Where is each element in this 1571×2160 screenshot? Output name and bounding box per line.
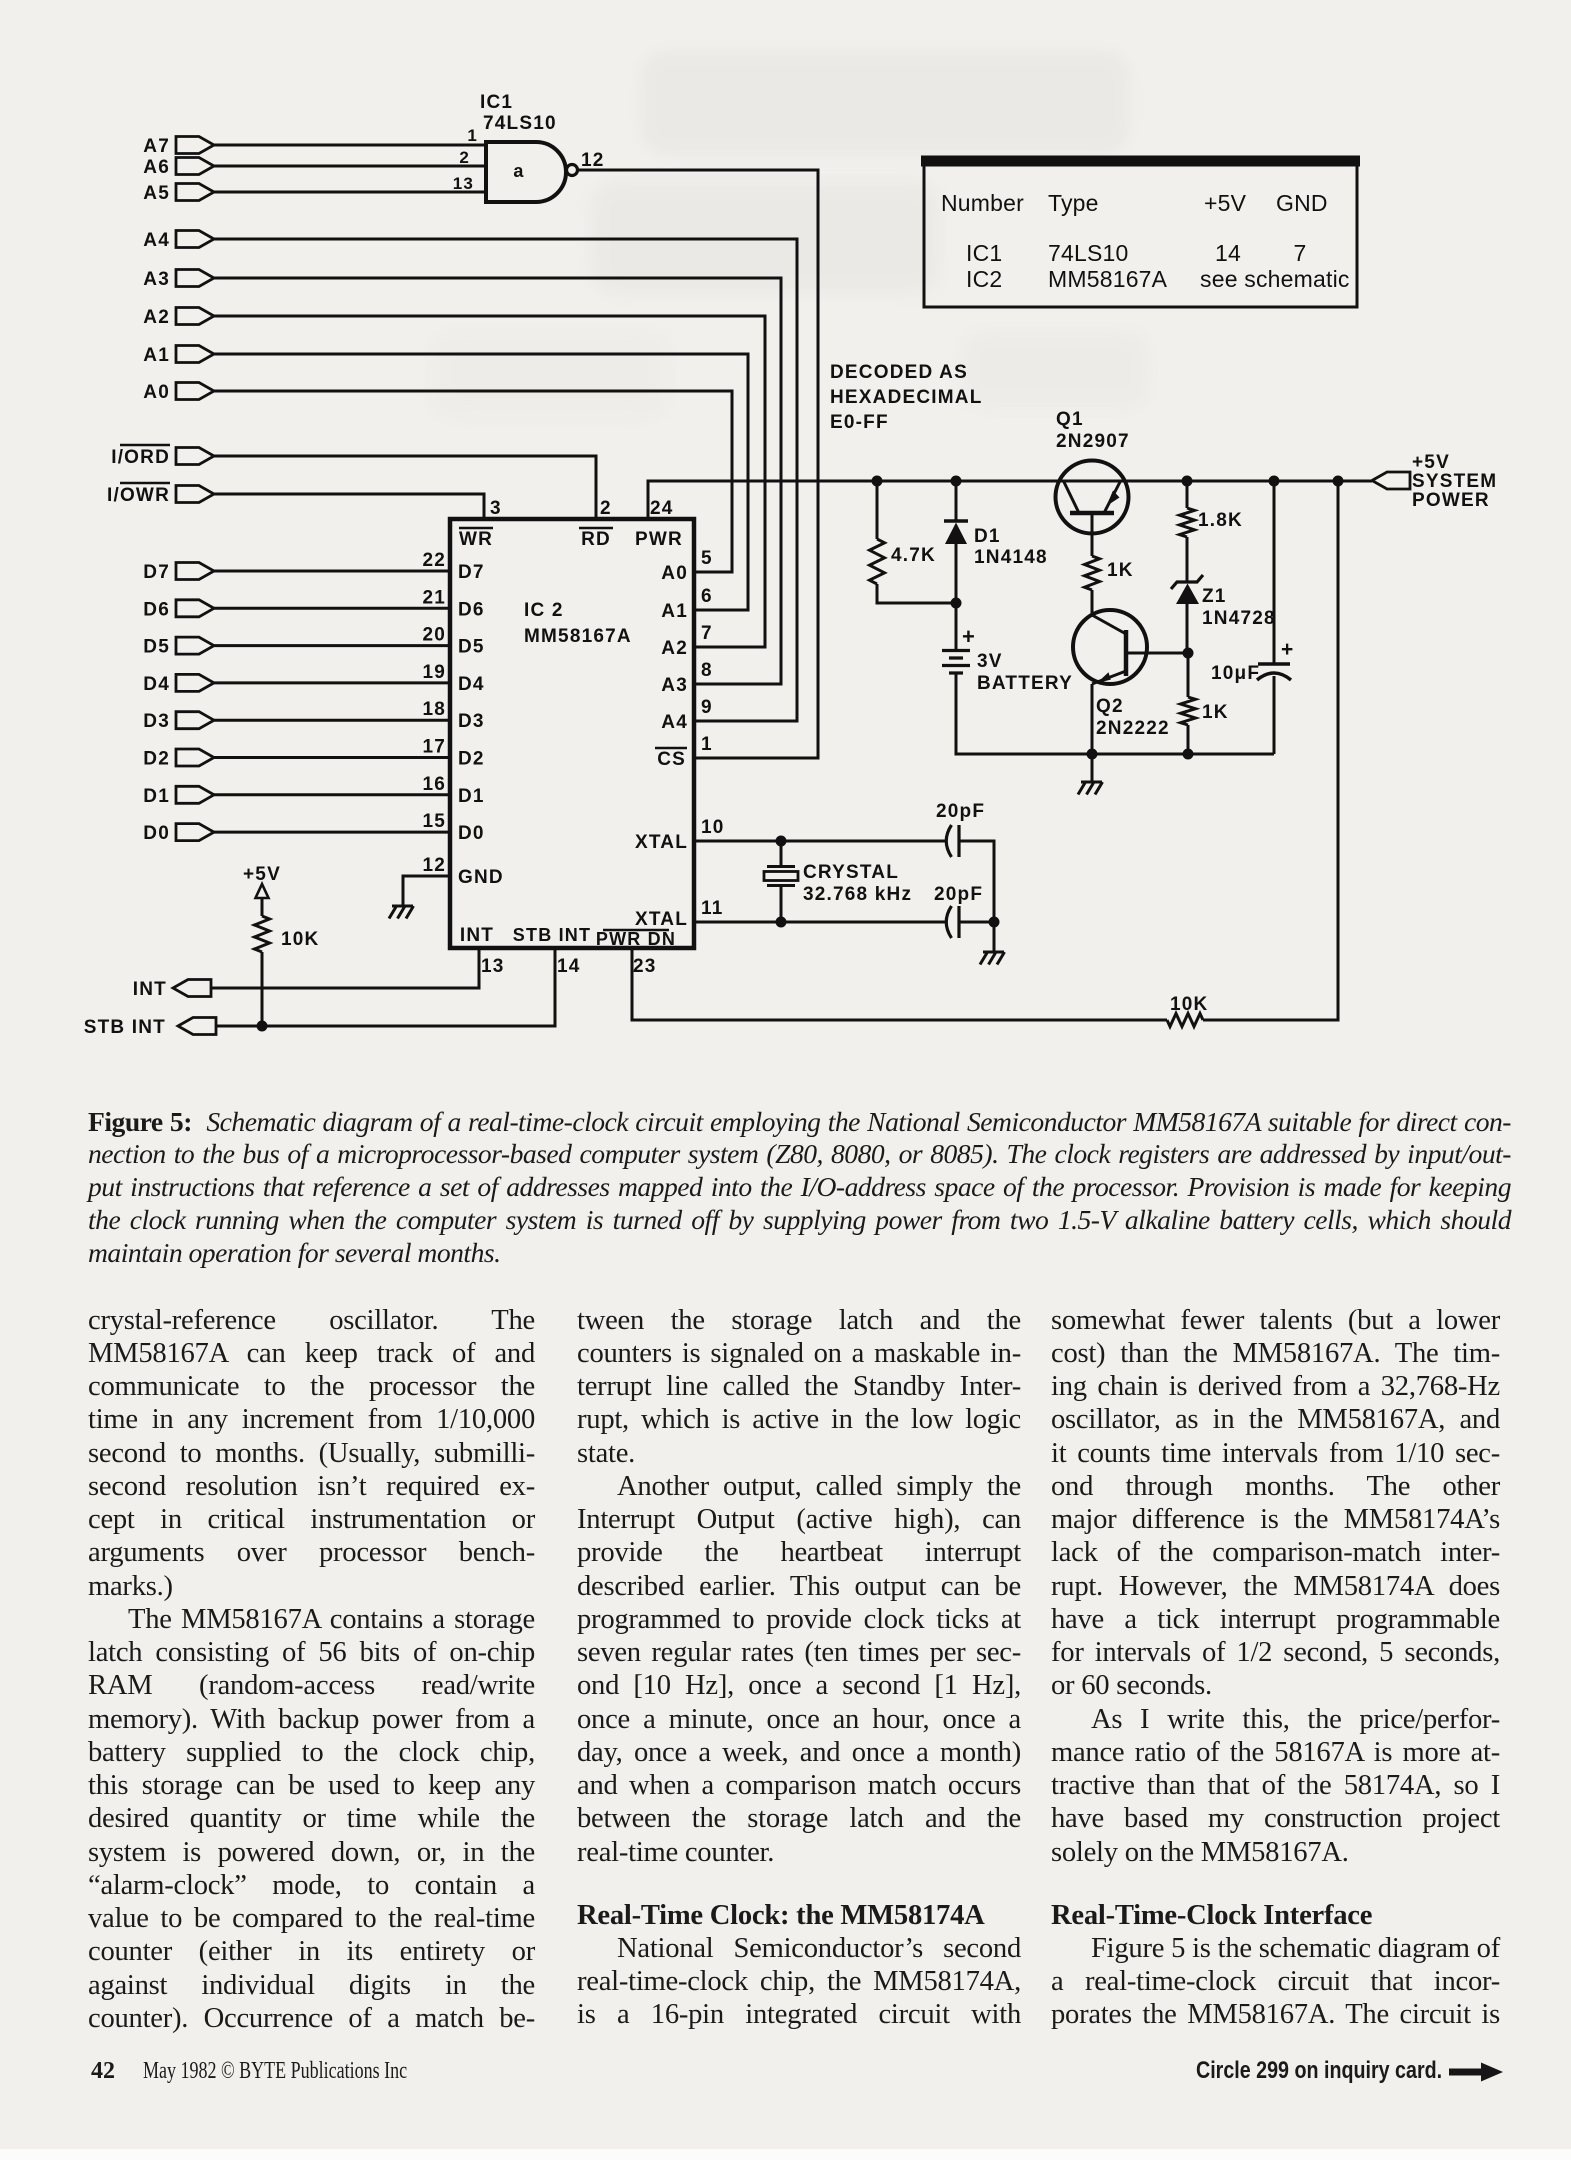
svg-text:3: 3	[490, 498, 502, 519]
svg-text:Q1: Q1	[1056, 409, 1084, 430]
battery 3V	[942, 603, 1274, 754]
svg-text:D0: D0	[458, 823, 485, 844]
wire PWR DN pin 23 with resistor 10K to +5V rail	[632, 481, 1338, 1027]
junction Q2 base / zener / 1K	[1183, 648, 1194, 659]
junction 1K / bottom rail	[1183, 749, 1194, 760]
svg-text:10μF: 10μF	[1211, 663, 1260, 684]
svg-text:A3: A3	[143, 269, 170, 290]
svg-text:13: 13	[453, 174, 474, 193]
input flag D7	[143, 562, 450, 583]
faint print bleed-through (decorative)	[640, 50, 1130, 155]
resistor 4.7K	[870, 481, 957, 603]
svg-text:a: a	[513, 161, 524, 181]
zener Z1 1N4728	[1171, 575, 1276, 653]
svg-text:D3: D3	[143, 711, 170, 732]
svg-text:D5: D5	[458, 637, 485, 658]
ground at GND pin	[389, 906, 414, 919]
input flag D6	[143, 599, 450, 620]
svg-text:7: 7	[701, 623, 713, 644]
svg-text:7: 7	[1294, 240, 1307, 266]
input flag D4	[143, 674, 450, 695]
input flag A2	[143, 307, 765, 647]
svg-text:MM58167A: MM58167A	[1048, 266, 1168, 292]
resistor 1K (Q2 base divider)	[1181, 653, 1229, 754]
svg-text:PWR: PWR	[635, 529, 683, 550]
figure caption	[88, 1106, 1511, 1139]
junction +5V rail / 4.7K	[872, 476, 883, 487]
svg-text:1K: 1K	[1202, 702, 1229, 723]
svg-text:12: 12	[581, 150, 605, 171]
svg-text:STB INT: STB INT	[513, 925, 591, 945]
+5V supply arrow (pull-up)	[243, 864, 281, 916]
svg-text:A1: A1	[143, 345, 170, 366]
svg-text:CRYSTAL: CRYSTAL	[803, 862, 899, 883]
svg-text:1.8K: 1.8K	[1198, 510, 1243, 531]
diode D1 1N4148	[944, 481, 1048, 603]
svg-text:GND: GND	[458, 867, 504, 888]
svg-text:20pF: 20pF	[936, 801, 985, 822]
svg-text:A3: A3	[661, 675, 688, 696]
svg-text:14: 14	[1215, 240, 1241, 266]
svg-text:MM58167A: MM58167A	[524, 626, 632, 647]
svg-text:SYSTEM: SYSTEM	[1412, 471, 1497, 492]
svg-text:74LS10: 74LS10	[483, 113, 557, 134]
svg-text:GND: GND	[1276, 190, 1328, 216]
body text column 2	[577, 1304, 1021, 1337]
parts table	[921, 158, 1360, 307]
svg-text:A2: A2	[143, 307, 170, 328]
svg-text:+: +	[962, 624, 976, 649]
svg-text:24: 24	[650, 498, 674, 519]
junction 4.7K / D1 / battery	[951, 598, 962, 609]
crystal 32.768 kHz	[764, 841, 912, 922]
svg-text:POWER: POWER	[1412, 490, 1490, 511]
svg-text:5: 5	[701, 548, 713, 569]
svg-text:A2: A2	[661, 638, 688, 659]
input flag A4	[143, 230, 797, 721]
input flag A7	[143, 136, 486, 157]
svg-text:A4: A4	[661, 712, 688, 733]
IC U2 MM58167A body	[450, 519, 694, 949]
svg-text:CS: CS	[657, 749, 686, 770]
svg-text:D0: D0	[143, 823, 170, 844]
svg-text:1K: 1K	[1107, 560, 1134, 581]
svg-text:2: 2	[459, 148, 470, 167]
svg-text:+5V: +5V	[1412, 452, 1450, 473]
svg-text:D7: D7	[458, 562, 485, 583]
svg-text:WR: WR	[459, 529, 493, 550]
svg-text:see schematic: see schematic	[1200, 266, 1350, 292]
svg-text:8: 8	[701, 660, 713, 681]
svg-text:11: 11	[701, 898, 724, 919]
svg-text:INT: INT	[460, 925, 494, 946]
svg-text:+: +	[1281, 638, 1294, 661]
svg-text:D4: D4	[143, 674, 170, 695]
svg-text:19: 19	[422, 662, 446, 683]
svg-text:23: 23	[633, 956, 657, 977]
transistor Q2 2N2222	[1073, 610, 1188, 754]
svg-text:D7: D7	[143, 562, 170, 583]
output flag STB INT	[84, 948, 555, 1038]
svg-text:XTAL: XTAL	[635, 909, 688, 930]
svg-text:1N4728: 1N4728	[1202, 608, 1276, 629]
svg-text:1: 1	[467, 126, 478, 145]
capacitor 10uF	[1211, 481, 1294, 754]
svg-text:IC2: IC2	[966, 266, 1002, 292]
input flag A3	[143, 269, 781, 684]
svg-text:A6: A6	[143, 157, 170, 178]
junction +5V rail / 1.8K	[1182, 476, 1193, 487]
wire XTAL pin 10	[694, 840, 945, 843]
svg-text:D6: D6	[143, 599, 170, 620]
svg-text:6: 6	[701, 586, 713, 607]
svg-text:16: 16	[422, 774, 446, 795]
junction +5V rail / 10uF	[1269, 476, 1280, 487]
svg-text:20: 20	[422, 625, 446, 646]
svg-text:D2: D2	[458, 749, 485, 770]
svg-text:XTAL: XTAL	[635, 832, 688, 853]
svg-text:18: 18	[422, 699, 446, 720]
footer	[91, 2058, 115, 2085]
capacitor 20pF (top)	[936, 801, 994, 922]
input flag D2	[143, 749, 450, 770]
svg-text:10: 10	[701, 817, 725, 838]
svg-text:RD: RD	[581, 529, 611, 550]
svg-text:14: 14	[557, 956, 581, 977]
svg-text:IC 2: IC 2	[524, 600, 564, 621]
input flag A0	[143, 382, 732, 572]
svg-text:D3: D3	[458, 711, 485, 732]
junction crystal bottom	[776, 917, 787, 928]
svg-text:13: 13	[481, 956, 505, 977]
IC2 pin numbers	[422, 498, 724, 977]
junction right rail / +5V rail	[1333, 476, 1344, 487]
svg-text:PWR DN: PWR DN	[596, 929, 676, 949]
svg-text:I/ORD: I/ORD	[111, 447, 170, 468]
svg-text:D1: D1	[143, 786, 170, 807]
svg-text:21: 21	[422, 587, 446, 608]
wire XTAL pin 11	[694, 921, 945, 924]
svg-text:D5: D5	[143, 637, 170, 658]
svg-text:A4: A4	[143, 230, 170, 251]
svg-text:D2: D2	[143, 749, 170, 770]
junction STB INT / pull-up	[257, 1021, 268, 1032]
input flag D5	[143, 637, 450, 658]
svg-text:I/OWR: I/OWR	[107, 485, 170, 506]
wire GND pin 12	[403, 876, 450, 906]
svg-text:A7: A7	[143, 136, 170, 157]
junction 20pF caps	[989, 917, 1000, 928]
svg-text:A0: A0	[661, 563, 688, 584]
wire NAND output pin 12 to CS pin 1	[578, 170, 818, 758]
input flag A6	[143, 157, 486, 178]
svg-text:15: 15	[422, 811, 446, 832]
input flag A1	[143, 345, 748, 610]
resistor 1.8K	[1180, 481, 1243, 582]
svg-text:32.768 kHz: 32.768 kHz	[803, 884, 912, 905]
svg-text:22: 22	[422, 550, 446, 571]
resistor 1K (Q1 base)	[1085, 556, 1134, 615]
input flag D3	[143, 711, 450, 732]
svg-text:Number: Number	[941, 190, 1024, 216]
svg-text:10K: 10K	[281, 929, 319, 950]
svg-text:Z1: Z1	[1202, 586, 1227, 607]
svg-text:E0-FF: E0-FF	[830, 412, 889, 433]
svg-text:2: 2	[600, 498, 612, 519]
body text column 3	[1051, 1304, 1500, 1337]
input flag A5	[143, 183, 486, 204]
svg-text:INT: INT	[133, 979, 167, 1000]
svg-text:1N4148: 1N4148	[974, 547, 1048, 568]
svg-text:12: 12	[422, 855, 446, 876]
junction +5V rail / D1	[951, 476, 962, 487]
svg-text:A1: A1	[661, 601, 688, 622]
svg-text:4.7K: 4.7K	[891, 545, 936, 566]
svg-text:STB INT: STB INT	[84, 1017, 166, 1038]
svg-text:74LS10: 74LS10	[1048, 240, 1129, 266]
wire PWR pin 24 to +5V rail	[648, 481, 1372, 517]
body text column 1	[88, 1304, 535, 1337]
svg-text:HEXADECIMAL: HEXADECIMAL	[830, 387, 983, 408]
capacitor 20pF (bottom)	[934, 884, 994, 938]
ground below 20pF caps	[980, 922, 1005, 965]
input flag I/ORD	[111, 445, 596, 517]
svg-text:20pF: 20pF	[934, 884, 983, 905]
svg-text:Q2: Q2	[1096, 696, 1124, 717]
svg-text:D1: D1	[458, 786, 485, 807]
svg-text:+5V: +5V	[1204, 190, 1247, 216]
svg-text:A5: A5	[143, 183, 170, 204]
svg-text:DECODED AS: DECODED AS	[830, 362, 968, 383]
svg-text:1: 1	[701, 734, 713, 755]
svg-text:D4: D4	[458, 674, 485, 695]
svg-text:IC1: IC1	[480, 92, 513, 113]
svg-text:3V: 3V	[977, 651, 1003, 672]
power flag +5V SYSTEM POWER	[1372, 452, 1497, 511]
resistor 10K pull-up	[255, 916, 320, 1026]
label DECODED AS HEXADECIMAL E0-FF	[830, 362, 983, 433]
svg-text:9: 9	[701, 697, 713, 718]
svg-text:17: 17	[422, 737, 446, 758]
svg-text:D1: D1	[974, 526, 1001, 547]
svg-text:D6: D6	[458, 599, 485, 620]
output flag INT	[133, 948, 479, 1000]
svg-text:2N2907: 2N2907	[1056, 431, 1130, 452]
svg-text:IC1: IC1	[966, 240, 1002, 266]
svg-text:Type: Type	[1048, 190, 1099, 216]
junction crystal top	[776, 836, 787, 847]
svg-text:10K: 10K	[1170, 994, 1208, 1015]
ground below Q2	[1078, 754, 1103, 795]
svg-text:A0: A0	[143, 382, 170, 403]
junction Q2 emitter / bottom rail	[1087, 749, 1098, 760]
input flag I/OWR	[107, 483, 484, 517]
svg-text:2N2222: 2N2222	[1096, 718, 1170, 739]
svg-text:BATTERY: BATTERY	[977, 673, 1073, 694]
transistor Q1 2N2907	[1056, 409, 1130, 556]
input flag D0	[143, 823, 450, 844]
op-amp/NAND gate IC1 74LS10	[453, 92, 605, 202]
input flag D1	[143, 786, 450, 807]
